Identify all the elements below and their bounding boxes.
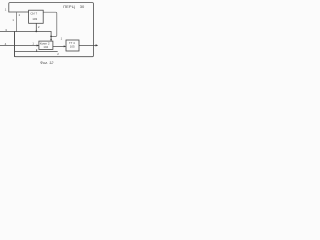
svg-text:30: 30	[80, 4, 85, 9]
arrowhead into ТГ	[64, 45, 66, 47]
arrowhead output right	[96, 44, 99, 46]
wire СИ output loop right-down-left	[43, 12, 57, 36]
svg-text:СИ 7: СИ 7	[30, 12, 37, 16]
svg-text:103: 103	[32, 17, 37, 21]
wire Комп output to ТГ	[53, 45, 65, 47]
wire W5 tick up to Комп bottom corner	[36, 50, 38, 52]
svg-text:104: 104	[43, 45, 48, 49]
block Комп 2 / 104	[39, 41, 53, 49]
junction dot СИ loop / Комп feed	[50, 36, 52, 38]
wire 2 from W3 up into СИ bottom	[35, 23, 37, 31]
svg-text:Фиг. 12: Фиг. 12	[40, 61, 54, 65]
junction dot W3/СИ wire 2	[35, 31, 37, 33]
wire left vertical lower crossing wire4	[14, 32, 16, 57]
wire ТГ output with exit through right edge	[79, 44, 97, 46]
wire W5 under Комп	[15, 51, 58, 53]
block ПЕРЦ 30 outer boundary (stepped top-left corner)	[9, 3, 94, 57]
wire input 1 into СИ	[9, 11, 29, 13]
wire 4 into Комп	[0, 45, 38, 47]
wire 3 long horizontal	[0, 31, 51, 33]
block ТГ 4 / 105	[66, 40, 79, 51]
block СИ 7 / 103	[29, 10, 44, 23]
arrowhead into Комп	[37, 45, 39, 47]
wire left vertical from input into СИ feed	[16, 13, 18, 32]
svg-text:ПЕРЦ: ПЕРЦ	[63, 4, 75, 9]
arrowhead down into Комп top	[50, 39, 52, 41]
wire from W3 down into Комп	[50, 32, 52, 41]
svg-text:105: 105	[70, 45, 75, 49]
